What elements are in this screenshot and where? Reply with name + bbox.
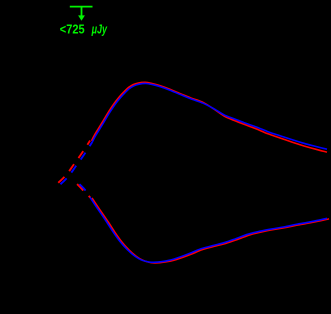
- green upper limit marker: stem: [81, 7, 83, 17]
- model curve 2 (blue) lower branch, solid: [90, 197, 327, 262]
- svg-text:<725: <725: [60, 21, 85, 36]
- model curve 1 (red) lower branch, dashed extrapolation: [77, 184, 87, 196]
- model curve 1 (red) upper branch, solid: [92, 82, 328, 152]
- svg-text:μJy: μJy: [91, 22, 108, 37]
- model curve 1 (red) lower branch, solid: [92, 198, 329, 263]
- red dash remnant dot at start of lower solid branch: [89, 196, 91, 198]
- model curve 2 (blue) upper branch, dashed extrapolation: [61, 142, 93, 184]
- model curve 2 (blue) lower branch, dashed extrapolation: [79, 184, 89, 196]
- green upper limit marker: arrowhead: [78, 15, 85, 20]
- model curve 1 (red) upper branch, dashed extrapolation: [58, 141, 90, 183]
- green upper limit marker: horizontal bar: [70, 6, 93, 8]
- model curve 2 (blue) upper branch, solid: [92, 83, 327, 149]
